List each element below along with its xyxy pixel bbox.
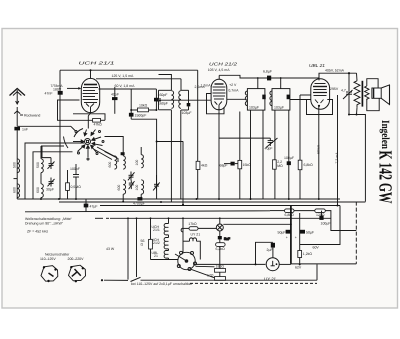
svg-text:60 V, 1,8 mA: 60 V, 1,8 mA bbox=[115, 84, 136, 88]
svg-text:0,5MΩ: 0,5MΩ bbox=[71, 185, 82, 189]
mains on-off switch lever bbox=[131, 277, 141, 281]
svg-text:6,8µF: 6,8µF bbox=[263, 70, 272, 74]
capacitor 6,8k at right bbox=[298, 160, 302, 170]
dashed chassis drop bbox=[355, 202, 357, 264]
wire antenna branch to switch bbox=[17, 126, 75, 131]
IF transformer 2 box 2 bbox=[270, 78, 311, 110]
IF transformer 1 bbox=[156, 75, 189, 111]
resistor 6,2k bbox=[216, 239, 226, 268]
svg-text:600: 600 bbox=[36, 187, 40, 193]
svg-text:15kΩ: 15kΩ bbox=[243, 163, 252, 167]
svg-text:100: 100 bbox=[135, 160, 139, 166]
bottom bus L2 bbox=[59, 201, 365, 203]
vertical wire IF1 left drop bbox=[170, 110, 172, 202]
resistor 180 ohm bbox=[215, 264, 226, 276]
svg-text:47nF: 47nF bbox=[45, 91, 53, 95]
svg-text:1,2kΩ: 1,2kΩ bbox=[303, 252, 313, 256]
output transformer primary bbox=[354, 73, 360, 107]
capacitor 47nF bbox=[58, 91, 63, 95]
svg-text:295V: 295V bbox=[330, 87, 339, 91]
svg-text:ZF = 452 kHz: ZF = 452 kHz bbox=[27, 230, 48, 234]
capacitor 40pF oscillator bbox=[111, 87, 119, 114]
resistor 6,8k ohm dropper bbox=[285, 209, 295, 217]
volume control arrow bbox=[219, 138, 278, 148]
svg-text:Netzumschalter: Netzumschalter bbox=[45, 253, 70, 257]
voltage selector rotary switch bbox=[151, 251, 197, 270]
antenna coil L2 bbox=[17, 184, 19, 198]
mains terminal bbox=[101, 279, 128, 281]
resistor 15k bbox=[238, 112, 251, 200]
wire mains feed left bbox=[127, 218, 129, 279]
vertical wire IF1 right drop bbox=[180, 110, 182, 199]
oscillator trimmer 3 bbox=[153, 175, 160, 190]
svg-text:43 W: 43 W bbox=[106, 247, 115, 251]
wire screen branch vertical bbox=[130, 89, 132, 119]
tube UBL21 envelope bbox=[311, 79, 330, 110]
resistor 0,5M bbox=[66, 170, 82, 199]
svg-text:4,7: 4,7 bbox=[341, 88, 346, 92]
svg-text:UY 21: UY 21 bbox=[264, 277, 276, 282]
coil tap wire bbox=[14, 178, 18, 180]
input selector wires stepped bbox=[25, 143, 84, 199]
capacitor 100pF bbox=[73, 164, 79, 199]
capacitor 5nF hum bbox=[218, 231, 230, 241]
electrolytic 50uF right bbox=[295, 213, 314, 251]
top bus wire bbox=[60, 69, 198, 71]
bottom bus L3 bbox=[100, 205, 340, 207]
capacitor 100uF reservoir right bbox=[321, 211, 323, 216]
svg-text:125 V, 1,5 mA: 125 V, 1,5 mA bbox=[112, 74, 135, 78]
svg-text:17kΩ: 17kΩ bbox=[188, 222, 197, 226]
svg-text:UCH 21/2: UCH 21/2 bbox=[209, 61, 238, 66]
capacitor 40pF bbox=[154, 89, 167, 110]
wire antenna down to bus bbox=[16, 130, 18, 199]
svg-text:7,2 mA: 7,2 mA bbox=[335, 152, 339, 164]
svg-text:6,8kΩ: 6,8kΩ bbox=[304, 163, 314, 167]
resistor 17 ohm bbox=[207, 274, 226, 281]
wire mains bottom run bbox=[141, 279, 318, 281]
svg-text:160pF: 160pF bbox=[158, 93, 168, 97]
capacitor 100pF det bbox=[284, 110, 294, 199]
oscillator coil Lc bbox=[141, 147, 143, 199]
svg-text:405V, 52mA: 405V, 52mA bbox=[325, 68, 345, 72]
svg-text:Rückwand: Rückwand bbox=[24, 114, 40, 118]
svg-text:100: 100 bbox=[135, 185, 139, 191]
svg-text:180Ω: 180Ω bbox=[216, 264, 225, 268]
tube UCH21/1 envelope bbox=[81, 70, 99, 112]
svg-text:+: + bbox=[295, 236, 297, 240]
heater UCH21/2 bbox=[164, 238, 168, 251]
oscillator trimmer 2 bbox=[129, 181, 135, 190]
wire anode 125V line bbox=[96, 78, 181, 80]
wire screen 60V line bbox=[99, 88, 157, 90]
svg-text:600: 600 bbox=[108, 162, 112, 168]
wire 60V screen feed bbox=[300, 206, 340, 245]
mains plug 220V bbox=[68, 265, 85, 282]
wire left drop from top bus bbox=[59, 70, 61, 199]
capacitor 6,8uF on bus bbox=[267, 76, 271, 81]
capacitor 1nF antenna series bbox=[14, 127, 20, 131]
rectifier tube UY21 bbox=[266, 258, 291, 271]
capacitor 4700pF padder bbox=[137, 197, 142, 200]
svg-text:2,5mA: 2,5mA bbox=[195, 85, 206, 89]
oscillator coil Lb bbox=[123, 142, 125, 202]
tube UCH21/2 envelope bbox=[211, 75, 227, 111]
svg-text:Ω: Ω bbox=[141, 243, 144, 247]
wire UCH2 cathode drop bbox=[218, 111, 220, 199]
wire grid line to UCH21/2 bbox=[159, 99, 211, 101]
svg-text:1nF: 1nF bbox=[22, 128, 28, 132]
dial lamp bbox=[216, 218, 291, 231]
trimmer capacitor RF 2 bbox=[48, 178, 55, 187]
svg-text:50µF: 50µF bbox=[306, 230, 314, 234]
resistor 17k lamp shunt bbox=[181, 218, 216, 252]
heater UY21 bbox=[183, 238, 200, 260]
svg-text:62V: 62V bbox=[295, 266, 302, 270]
loudspeaker bbox=[367, 79, 390, 111]
dash mark bbox=[95, 217, 103, 219]
wire B+ output line bbox=[291, 263, 356, 265]
IF transformer 2 box 1 bbox=[245, 78, 265, 110]
resistor 10k bbox=[130, 103, 157, 112]
junction blob osc coil top bbox=[121, 152, 125, 155]
svg-text:K 142 GW: K 142 GW bbox=[375, 151, 395, 204]
svg-text:68pF: 68pF bbox=[220, 164, 228, 168]
svg-text:6,2kΩ: 6,2kΩ bbox=[216, 247, 226, 251]
svg-text:21: 21 bbox=[154, 254, 158, 258]
svg-text:40pF: 40pF bbox=[265, 147, 273, 151]
svg-text:1500pF: 1500pF bbox=[135, 113, 147, 117]
svg-text:50µF: 50µF bbox=[278, 230, 286, 234]
capacitor 2uF bbox=[255, 242, 276, 265]
svg-text:500: 500 bbox=[13, 162, 17, 168]
svg-text:60mA: 60mA bbox=[316, 144, 320, 154]
svg-text:103µF: 103µF bbox=[182, 111, 192, 115]
wire right feed down bbox=[325, 211, 356, 231]
wire mains feed right bbox=[136, 218, 138, 277]
resistor 47k ohm above switch bbox=[93, 119, 105, 127]
vertical wire IF2 box1 drop bbox=[250, 110, 252, 199]
svg-text:600: 600 bbox=[13, 187, 17, 193]
resistor 4k bbox=[195, 70, 208, 199]
junction dots bottom bbox=[40, 198, 339, 207]
vertical wire screen 7,2mA bbox=[337, 95, 339, 206]
svg-text:200–220V: 200–220V bbox=[68, 257, 85, 261]
svg-text:47µF: 47µF bbox=[90, 205, 98, 209]
svg-text:+2 V: +2 V bbox=[229, 83, 237, 87]
capacitor 47nF AVC bbox=[84, 199, 98, 212]
band switch rotary bbox=[64, 113, 105, 160]
electrolytic 50uF left bbox=[278, 206, 291, 264]
antenna bbox=[10, 89, 26, 127]
antenna plug / Rueckwand tap bbox=[14, 111, 23, 115]
svg-text:100pF: 100pF bbox=[70, 167, 80, 171]
svg-text:2µF: 2µF bbox=[267, 248, 273, 252]
svg-text:100µF: 100µF bbox=[284, 156, 294, 160]
mains plug 110V bbox=[41, 266, 58, 283]
RF coil L3 bbox=[41, 146, 43, 199]
svg-text:30pF: 30pF bbox=[46, 188, 54, 192]
svg-text:500: 500 bbox=[36, 162, 40, 168]
wires switch to osc coils diagonals bbox=[94, 147, 119, 162]
vertical wire grid return bbox=[182, 141, 184, 204]
trimmer capacitor 4,7nF tone bbox=[343, 73, 353, 114]
wire switch to resistors bbox=[196, 265, 215, 268]
bottom bus L1 bbox=[17, 198, 340, 200]
resistor 125 ohm dropper bbox=[315, 209, 326, 217]
svg-text:10kΩ: 10kΩ bbox=[139, 103, 148, 107]
bottom bus L4 bbox=[25, 211, 270, 212]
svg-text:+: + bbox=[286, 236, 288, 240]
antenna coil L1 bbox=[17, 159, 19, 173]
svg-text:110–125V: 110–125V bbox=[40, 257, 56, 261]
svg-text:21/1: 21/1 bbox=[153, 228, 160, 232]
power section top bus bbox=[110, 217, 331, 219]
output transformer secondary bbox=[365, 86, 369, 100]
svg-text:160pF: 160pF bbox=[158, 102, 168, 106]
svg-text:103µF: 103µF bbox=[249, 105, 259, 109]
wire UBL top bus bbox=[319, 73, 357, 80]
svg-text:UBL 21: UBL 21 bbox=[309, 63, 326, 68]
wires switch row right bbox=[105, 137, 124, 143]
svg-text:105 V, 4,5 mA: 105 V, 4,5 mA bbox=[208, 68, 231, 72]
svg-text:0,7mA: 0,7mA bbox=[228, 88, 239, 92]
svg-text:47kΩ: 47kΩ bbox=[94, 122, 103, 126]
svg-text:100µF: 100µF bbox=[321, 221, 331, 225]
UBL21 cathode loop rectangle bbox=[307, 100, 333, 115]
svg-text:103µF: 103µF bbox=[274, 105, 284, 109]
resistor 1,2k bbox=[298, 251, 313, 266]
output transformer core bbox=[361, 81, 363, 107]
heater UBL21 bbox=[164, 251, 178, 260]
svg-text:Ingelen: Ingelen bbox=[379, 120, 391, 149]
svg-text:40pF: 40pF bbox=[111, 92, 119, 96]
oscillator feedback loop wire bbox=[58, 100, 93, 120]
wire up from bus right bbox=[364, 201, 366, 203]
svg-text:UCH 21/1: UCH 21/1 bbox=[79, 60, 116, 65]
resistor 2,2M bbox=[273, 110, 284, 199]
heater UCH21/1 bbox=[164, 218, 168, 237]
trimmer capacitor RF 1 bbox=[48, 159, 55, 169]
svg-text:MΩ: MΩ bbox=[277, 164, 283, 168]
svg-text:21/2: 21/2 bbox=[153, 241, 160, 245]
capacitor 68pF bbox=[231, 162, 235, 166]
resistor 56ohm series bbox=[141, 218, 153, 259]
svg-text:4kΩ: 4kΩ bbox=[201, 164, 208, 168]
svg-text:bei 110–125V auf 2x0,1µF umsch: bei 110–125V auf 2x0,1µF umschaltbar bbox=[131, 282, 193, 286]
vertical wire UBL cathode 60mA bbox=[318, 107, 320, 200]
wire speaker return drop bbox=[356, 114, 358, 116]
wire inner loop rail bbox=[73, 114, 105, 121]
svg-text:600: 600 bbox=[117, 185, 121, 191]
svg-text:6,8kΩ: 6,8kΩ bbox=[285, 213, 295, 217]
svg-text:Drehung um 90°: „UKW: Drehung um 90°: „UKW“ bbox=[25, 221, 64, 225]
svg-text:180V: 180V bbox=[53, 87, 62, 91]
oscillator coil La bbox=[115, 156, 117, 169]
svg-text:UY 21: UY 21 bbox=[191, 232, 201, 236]
wire AVC path bbox=[131, 119, 156, 199]
svg-text:5nF: 5nF bbox=[224, 237, 230, 241]
svg-text:60V: 60V bbox=[313, 245, 320, 249]
wire UY21 anode line bbox=[195, 263, 265, 265]
capacitor 1500pF bbox=[129, 113, 146, 118]
oscillator trimmer 1 bbox=[128, 172, 135, 181]
